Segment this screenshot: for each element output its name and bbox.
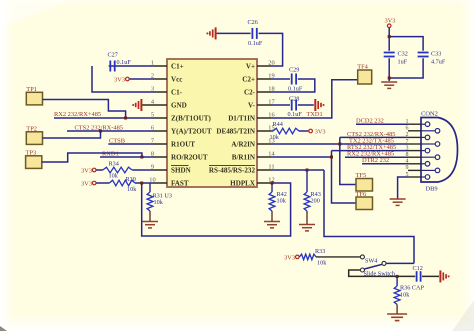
svg-text:C28: C28 bbox=[289, 95, 299, 102]
power 3V3 (top right) bbox=[384, 17, 395, 27]
svg-text:3V3: 3V3 bbox=[284, 254, 295, 261]
svg-text:R36 CAP: R36 CAP bbox=[400, 284, 424, 291]
connector pin 2 bbox=[406, 132, 430, 140]
wire pin15 to R44 bbox=[271, 130, 309, 132]
node junction pin8/TP3 bbox=[140, 156, 143, 159]
net label CTSB bbox=[109, 137, 125, 144]
wire V+ to C26 bbox=[217, 33, 283, 66]
svg-text:3V3: 3V3 bbox=[384, 17, 395, 24]
svg-text:4.7uF: 4.7uF bbox=[431, 58, 446, 65]
wire TP1 to pin5 bbox=[43, 100, 126, 119]
wire net CTS2 232/RX-485 (DB9 pin 2) bbox=[340, 131, 408, 138]
power 3V3 (pin 2 Vcc) bbox=[114, 76, 153, 83]
wire C12 to ground bbox=[422, 275, 439, 277]
svg-text:C2-: C2- bbox=[244, 88, 256, 96]
wire SW4 bottom to C12/R36 bbox=[349, 270, 416, 276]
ground (under C32/C33) bbox=[381, 82, 397, 88]
svg-text:TF5: TF5 bbox=[356, 172, 367, 179]
ground (under R42) bbox=[264, 211, 280, 228]
svg-text:1uF: 1uF bbox=[398, 58, 408, 65]
svg-text:TP1: TP1 bbox=[26, 86, 37, 93]
wire 3V3 to R34 to pin 9 bbox=[96, 169, 153, 171]
ground (under R31) bbox=[142, 211, 158, 228]
svg-text:R34: R34 bbox=[109, 160, 119, 167]
connector pin 7 bbox=[406, 139, 440, 147]
power 3V3 (R30 pull-up) bbox=[81, 180, 96, 187]
wire 3V3 to R30 to pin 10 bbox=[96, 182, 153, 184]
pin 10 stub (FAST) bbox=[149, 176, 167, 183]
svg-text:R44: R44 bbox=[273, 121, 283, 128]
svg-text:C12: C12 bbox=[413, 265, 423, 272]
svg-text:10k: 10k bbox=[154, 199, 164, 206]
node junction R36/C12 bbox=[396, 275, 399, 278]
svg-text:V+: V+ bbox=[246, 62, 255, 70]
svg-text:SHDN: SHDN bbox=[171, 166, 192, 174]
svg-text:10k: 10k bbox=[317, 259, 327, 266]
svg-text:10k: 10k bbox=[270, 134, 280, 141]
svg-text:3V3: 3V3 bbox=[315, 128, 326, 135]
capacitor C29 bbox=[288, 67, 303, 93]
wire CTS2 tie (vertical) and TF5 drop bbox=[340, 137, 356, 184]
test point TF4 bbox=[357, 64, 372, 84]
connector pin 6 bbox=[406, 126, 440, 134]
resistor R43 bbox=[304, 170, 321, 211]
svg-text:R1OUT: R1OUT bbox=[171, 140, 195, 148]
svg-text:3V3: 3V3 bbox=[81, 167, 92, 174]
connector CON2 DB9 outline bbox=[421, 111, 458, 193]
connector pin 5 bbox=[406, 172, 430, 180]
test point TF6 bbox=[356, 191, 373, 210]
node junction TX2/TF5 bbox=[338, 143, 341, 146]
svg-text:DTR2 232: DTR2 232 bbox=[362, 157, 389, 164]
capacitor C28 bbox=[288, 95, 303, 117]
pin 16 stub (D1/T1IN) bbox=[257, 112, 275, 119]
wire net RTS2 232/TX+485 (DB9 pin 3) bbox=[332, 144, 409, 151]
pin 6 stub (Y(A)/T2OUT) bbox=[151, 124, 167, 131]
wire 3V3 to C32/C33 bbox=[389, 28, 423, 81]
svg-text:3V3: 3V3 bbox=[114, 76, 125, 83]
svg-text:C29: C29 bbox=[289, 67, 299, 74]
svg-text:9: 9 bbox=[406, 165, 409, 171]
wire net RX2 232/RX+485 (pin 5) bbox=[54, 117, 153, 119]
ground (C26, sideways power ground) bbox=[206, 27, 215, 39]
connector pin 9 bbox=[406, 165, 440, 173]
svg-text:R33: R33 bbox=[315, 248, 325, 255]
node junction pin11/R43 bbox=[306, 169, 309, 172]
svg-text:10k: 10k bbox=[277, 198, 287, 205]
svg-text:0.1uF: 0.1uF bbox=[248, 40, 263, 47]
svg-text:FAST: FAST bbox=[171, 179, 189, 187]
connector pin 1 bbox=[406, 119, 430, 126]
pin 9 stub (SHDN) bbox=[151, 163, 167, 170]
ground (C28, sideways power ground) bbox=[315, 99, 324, 111]
wire FAST/HDPLX rail bbox=[142, 183, 291, 236]
test point TP3 bbox=[26, 150, 42, 169]
svg-text:0.1uF: 0.1uF bbox=[288, 111, 303, 118]
wire RS-485/RS-232 select net (pin 11) bbox=[271, 170, 414, 263]
resistor R42 bbox=[269, 183, 287, 211]
pin 15 stub (DE485/T2IN) bbox=[257, 125, 275, 132]
resistor R34 bbox=[103, 160, 132, 179]
op-amp / transceiver IC U3 body bbox=[167, 59, 257, 187]
ground (pin 4, sideways power ground) bbox=[132, 99, 153, 111]
wire net CTS2 232/RX-485 (pin 6) bbox=[67, 130, 153, 132]
resistor R33 bbox=[300, 248, 328, 266]
power 3V3 (R34 pull-up) bbox=[81, 167, 96, 174]
pin 7 stub (R1OUT) bbox=[151, 137, 167, 144]
svg-text:C1+: C1+ bbox=[171, 62, 184, 70]
svg-text:C27: C27 bbox=[108, 52, 118, 59]
connector pin 8 bbox=[406, 152, 440, 160]
ground (under R43) bbox=[299, 211, 315, 231]
wire TP2 to pin6 bbox=[43, 131, 101, 138]
svg-text:C1-: C1- bbox=[171, 88, 183, 96]
wire rail to SW4 common bbox=[386, 262, 414, 264]
wire pin17 V- to C28 bbox=[271, 104, 314, 106]
svg-text:A/R2IN: A/R2IN bbox=[231, 140, 256, 148]
node junction pin5/TP1 bbox=[124, 117, 127, 120]
svg-text:GND: GND bbox=[171, 101, 187, 109]
net label CTS2 232/RX-485 bbox=[75, 124, 123, 131]
resistor R30 bbox=[109, 176, 137, 193]
switch SW4 slide switch bbox=[360, 255, 395, 278]
svg-text:R30: R30 bbox=[126, 176, 136, 183]
net label RXD1 bbox=[102, 150, 119, 157]
resistor R31 bbox=[147, 183, 164, 211]
pin 11 stub (RS-485/RS-232) bbox=[257, 164, 275, 171]
node junction C33 return bbox=[388, 77, 391, 80]
capacitor C12 bbox=[413, 265, 423, 282]
svg-text:SW4: SW4 bbox=[365, 257, 377, 264]
net label TXD1 bbox=[307, 111, 323, 118]
svg-text:TXD1: TXD1 bbox=[307, 111, 323, 118]
svg-text:DB9: DB9 bbox=[425, 186, 437, 193]
svg-text:C33: C33 bbox=[431, 51, 441, 58]
connector pin 3 bbox=[406, 145, 430, 153]
wire net CTSB (pin 7) bbox=[108, 143, 153, 145]
pin 4 stub (GND) bbox=[151, 98, 167, 105]
svg-text:RO/R2OUT: RO/R2OUT bbox=[171, 153, 208, 161]
svg-text:HDPLX: HDPLX bbox=[230, 179, 256, 187]
capacitor C32 bbox=[384, 51, 408, 66]
svg-text:Vcc: Vcc bbox=[171, 75, 182, 83]
pin 19 stub (C2+) bbox=[257, 73, 275, 80]
pin 5 stub (Z(B/T1OUT)) bbox=[151, 111, 167, 118]
svg-text:200: 200 bbox=[311, 198, 320, 205]
pin 12 stub (HDPLX) bbox=[257, 177, 275, 184]
wire pin 14 to RTS2 tie and TF6 drop bbox=[271, 151, 356, 203]
svg-text:3V3: 3V3 bbox=[81, 180, 92, 187]
power 3V3 (R33) bbox=[284, 254, 299, 261]
svg-text:6: 6 bbox=[406, 126, 409, 132]
wire 3V3 to R33 to SW4 bbox=[299, 256, 360, 258]
svg-text:CON2: CON2 bbox=[421, 111, 438, 118]
resistor R36 bbox=[394, 276, 424, 304]
connector pin 4 bbox=[406, 159, 430, 167]
node junction pin10/rail bbox=[140, 182, 143, 185]
svg-text:0.1uF: 0.1uF bbox=[288, 86, 303, 93]
svg-text:CTS2 232/RX-485: CTS2 232/RX-485 bbox=[75, 124, 123, 131]
svg-text:D1/T1IN: D1/T1IN bbox=[228, 114, 256, 122]
svg-text:C2+: C2+ bbox=[242, 75, 255, 83]
node junction pin6/TP2 bbox=[99, 130, 102, 133]
wire net RXD1 (pin 8) bbox=[100, 156, 153, 158]
svg-text:RXD1: RXD1 bbox=[102, 150, 119, 157]
power 3V3 (R44) bbox=[309, 128, 326, 135]
pin 13 stub (A/R2IN) bbox=[257, 138, 275, 145]
svg-text:C26: C26 bbox=[248, 19, 258, 26]
pin 20 stub (V+) bbox=[257, 60, 275, 67]
svg-text:CTSB: CTSB bbox=[109, 137, 125, 144]
wire TP3 to pin8 bbox=[42, 153, 142, 162]
pin 8 stub (RO/R2OUT) bbox=[151, 150, 167, 157]
node junction pin12/R42 bbox=[271, 182, 274, 185]
wire net DCD2 232 bbox=[356, 117, 408, 124]
capacitor C27 bbox=[108, 52, 132, 72]
node junction 3V3/C33 branch bbox=[388, 35, 391, 38]
svg-text:TP3: TP3 bbox=[26, 150, 37, 157]
svg-text:10k: 10k bbox=[127, 186, 137, 193]
test point TP1 bbox=[26, 86, 42, 105]
svg-text:10k: 10k bbox=[400, 291, 410, 298]
pin 1 stub (C1+) bbox=[151, 59, 167, 66]
svg-text:TF6: TF6 bbox=[356, 191, 367, 198]
wire net TX2 232/TX-485 (pin 13 to DB9 pin 7) bbox=[271, 137, 408, 144]
wire net DTR2 232 bbox=[362, 157, 408, 164]
wire net TXD1 (pin 16) to TF4 bbox=[271, 80, 358, 118]
wire net RX2 232/RX+485 (DB9 pin 8) bbox=[345, 150, 408, 157]
pin 2 stub (Vcc) bbox=[151, 72, 167, 79]
resistor R44 bbox=[270, 121, 300, 141]
designator U3 bbox=[153, 192, 172, 199]
ground (C12, sideways power ground) bbox=[440, 270, 449, 282]
test point TF5 bbox=[356, 172, 373, 191]
pin 18 stub (C2-) bbox=[257, 86, 275, 93]
svg-text:TF4: TF4 bbox=[357, 64, 368, 71]
pin 17 stub (V-) bbox=[257, 99, 276, 106]
svg-text:Y(A)/T2OUT: Y(A)/T2OUT bbox=[171, 127, 212, 135]
svg-text:B/R1IN: B/R1IN bbox=[232, 153, 256, 161]
ground (under R36) bbox=[387, 305, 407, 321]
svg-text:TP2: TP2 bbox=[26, 126, 37, 133]
wire C1+ / C1- loop bbox=[92, 66, 153, 92]
net label RX2 232/RX+485 bbox=[54, 111, 101, 118]
svg-text:DE485/T2IN: DE485/T2IN bbox=[216, 127, 256, 135]
svg-text:10k: 10k bbox=[109, 172, 119, 179]
svg-text:Z(B/T1OUT): Z(B/T1OUT) bbox=[171, 114, 211, 122]
svg-text:DCD2 232: DCD2 232 bbox=[356, 117, 384, 124]
pin 14 stub (B/R1IN) bbox=[257, 151, 276, 158]
node junction pin14/TF6 bbox=[330, 156, 333, 159]
test point TP2 bbox=[26, 126, 42, 145]
svg-text:V-: V- bbox=[248, 101, 256, 109]
svg-text:RX2 232/RX+485: RX2 232/RX+485 bbox=[54, 111, 101, 118]
svg-text:0.1uF: 0.1uF bbox=[117, 59, 132, 66]
svg-text:RS-485/RS-232: RS-485/RS-232 bbox=[209, 166, 256, 174]
wire C2+/C2- loop bbox=[271, 79, 315, 92]
capacitor C33 bbox=[418, 51, 446, 66]
pin name labels U3 bbox=[171, 62, 256, 187]
pin 3 stub (C1-) bbox=[151, 85, 167, 92]
wire DB9 pin 5 to ground bbox=[398, 177, 408, 199]
svg-text:C32: C32 bbox=[398, 51, 408, 58]
capacitor C26 bbox=[248, 19, 263, 47]
ground (DB9 pin 5) bbox=[390, 199, 406, 205]
